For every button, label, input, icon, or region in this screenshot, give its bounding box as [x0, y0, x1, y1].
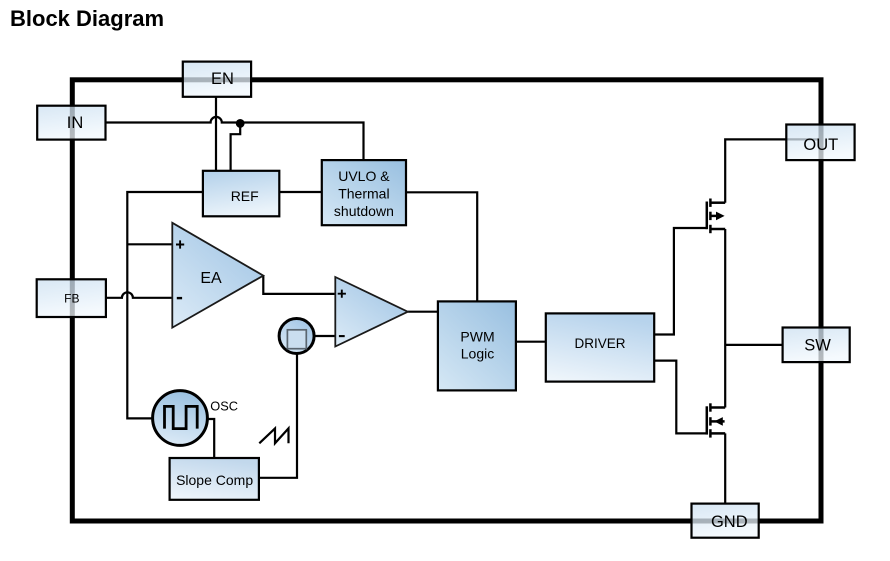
- transistor Q1 high-side FET: [707, 199, 725, 234]
- svg-text:Slope Comp: Slope Comp: [176, 472, 253, 488]
- IC boundary outer border: [72, 80, 821, 521]
- wire branch to EA plus input: [127, 243, 172, 245]
- wire DRIVER to top FET gate: [654, 228, 707, 335]
- wire PWM Logic to DRIVER: [516, 341, 546, 343]
- svg-text:PWM: PWM: [460, 329, 494, 345]
- wire switch node between FETs: [724, 229, 726, 408]
- pin box EN: [183, 62, 251, 97]
- pin box FB: [37, 279, 106, 317]
- summing node: [279, 319, 314, 354]
- pin box IN: [37, 106, 105, 140]
- wire FB to EA minus input (with hop): [106, 292, 172, 297]
- pin box SW: [783, 328, 850, 363]
- block PWM Logic: [438, 301, 516, 390]
- wire OSC to Slope Comp: [207, 419, 215, 458]
- wire EA output to comparator: [263, 276, 335, 294]
- svg-text:GND: GND: [711, 513, 748, 531]
- oscillator OSC: [153, 391, 238, 446]
- wire EN to REF: [215, 97, 217, 171]
- pin box GND: [692, 504, 759, 538]
- svg-text:UVLO &: UVLO &: [338, 168, 390, 184]
- wire REF to EA+ and OSC: [127, 192, 203, 418]
- svg-text:Logic: Logic: [461, 346, 494, 362]
- wire UVLO to PWM Logic: [406, 192, 477, 301]
- block DRIVER: [546, 313, 654, 381]
- wire switch node to SW: [725, 344, 782, 346]
- svg-text:SW: SW: [804, 337, 831, 355]
- svg-text:REF: REF: [231, 188, 259, 204]
- junction dot on IN net: [236, 119, 245, 128]
- wire IN to UVLO (with hop): [106, 117, 364, 160]
- svg-text:Block Diagram: Block Diagram: [10, 6, 164, 31]
- wire DRIVER to bottom FET gate: [654, 361, 707, 434]
- svg-text:FB: FB: [64, 292, 79, 306]
- op-amp EA: [172, 223, 263, 328]
- wire summing node to comparator: [315, 335, 336, 337]
- svg-text:OSC: OSC: [210, 399, 238, 414]
- wire top FET drain to OUT: [725, 139, 818, 202]
- wire bottom FET source to GND: [724, 433, 726, 503]
- transistor Q2 low-side FET: [707, 403, 725, 437]
- svg-text:DRIVER: DRIVER: [574, 336, 625, 351]
- svg-text:IN: IN: [67, 114, 84, 132]
- wire comparator to PWM Logic: [408, 311, 438, 313]
- block Slope Comp: [170, 458, 259, 500]
- block REF: [203, 171, 279, 217]
- svg-text:shutdown: shutdown: [334, 203, 394, 219]
- wire REF to UVLO: [279, 191, 322, 193]
- wire junction to REF: [231, 123, 241, 170]
- svg-text:EA: EA: [200, 270, 222, 287]
- pin box OUT: [786, 125, 854, 161]
- svg-text:OUT: OUT: [803, 136, 838, 154]
- svg-text:EN: EN: [211, 70, 234, 88]
- wire Slope Comp to summing node: [259, 354, 297, 478]
- sawtooth symbol: [259, 428, 288, 443]
- comparator: [335, 277, 408, 347]
- svg-text:Thermal: Thermal: [338, 186, 389, 202]
- block UVLO and Thermal shutdown: [322, 160, 406, 225]
